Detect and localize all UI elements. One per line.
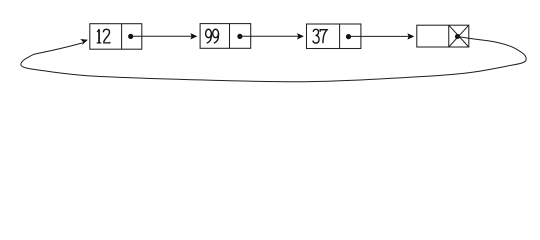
node 37 value label <box>313 29 327 43</box>
sentinel node null cross <box>449 25 469 47</box>
wire: arrow node 12 -> node 99 <box>131 33 198 39</box>
node 99 pointer dot <box>237 34 242 39</box>
node 99 value label <box>206 29 219 43</box>
wire: loop back arrow sentinel -> node 12 <box>21 37 526 82</box>
node 37 box <box>307 24 361 49</box>
wire: arrow node 99 -> node 37 <box>240 33 304 39</box>
node 37 pointer dot <box>346 34 351 39</box>
node 12 pointer dot <box>128 34 133 39</box>
sentinel node pointer dot <box>455 34 460 39</box>
sentinel node box <box>417 25 469 47</box>
node 12 box <box>90 24 142 50</box>
node 12 value label <box>97 29 110 43</box>
node 99 box <box>200 24 251 49</box>
wire: arrow node 37 -> sentinel node <box>349 33 415 39</box>
